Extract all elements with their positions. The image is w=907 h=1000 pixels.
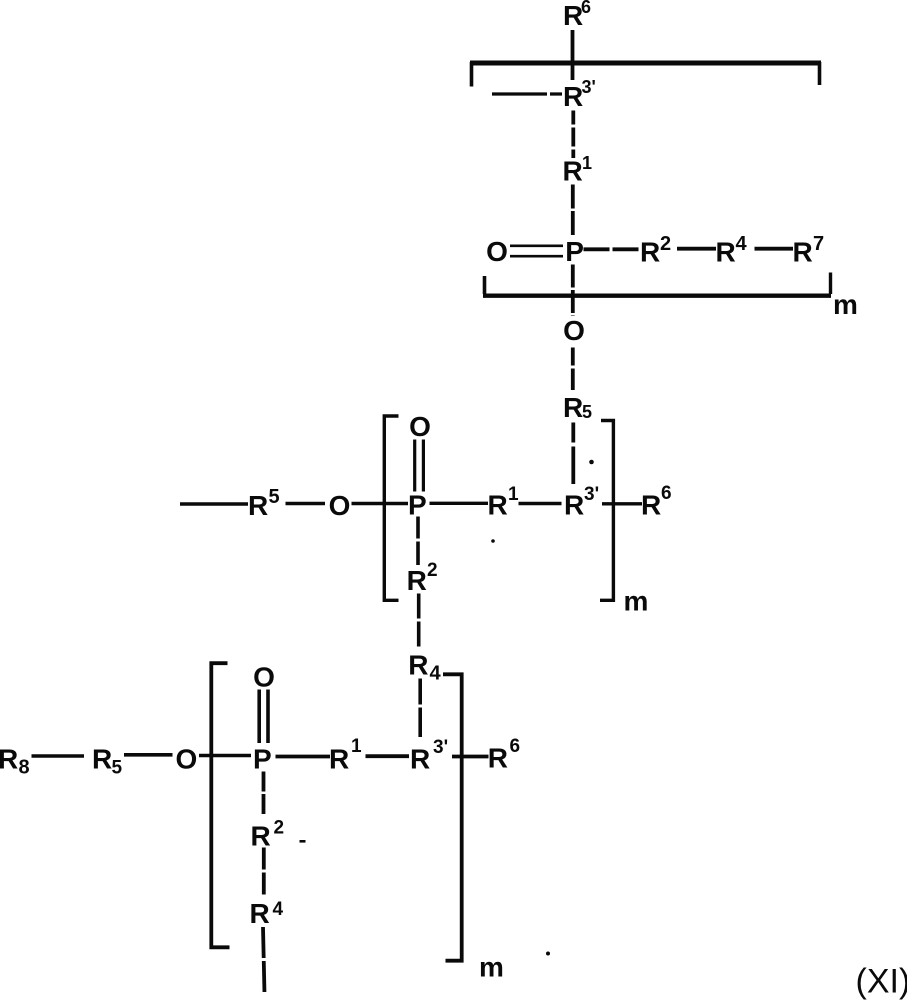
speck below R1 mid (491, 539, 495, 543)
bond O-P bottom (199, 754, 251, 758)
atom label R6 top (563, 0, 591, 31)
wire O-R5 spine (571, 348, 575, 391)
svg-text:R: R (640, 237, 660, 268)
svg-text:R: R (329, 744, 349, 775)
svg-text:5: 5 (112, 758, 123, 779)
svg-text:1: 1 (508, 484, 519, 505)
svg-text:R: R (563, 392, 583, 423)
bond R3'-R6 mid (602, 502, 642, 505)
atom label R1 bottom (329, 736, 362, 775)
svg-text:3': 3' (582, 77, 596, 97)
svg-text:R: R (488, 743, 508, 774)
svg-text:m: m (833, 289, 858, 320)
svg-text:(XI): (XI) (856, 963, 907, 1000)
svg-text:O: O (329, 490, 351, 521)
svg-text:R: R (488, 490, 508, 521)
bracket bottom horizontal top-section (483, 294, 831, 298)
atom label R6 mid (641, 483, 672, 521)
svg-text:1: 1 (351, 736, 362, 757)
bracket left mid (384, 416, 398, 600)
svg-text:8: 8 (19, 757, 30, 779)
wire R3'-R1 (571, 111, 575, 159)
wire below R4 (263, 927, 265, 994)
atom label R4 top (716, 233, 748, 268)
svg-text:4: 4 (736, 233, 748, 255)
svg-text:R: R (641, 490, 661, 521)
svg-text:O: O (176, 744, 198, 775)
svg-text:R: R (0, 744, 18, 775)
svg-text:6: 6 (661, 483, 672, 504)
atom label R7 top (793, 233, 825, 268)
svg-text:R: R (564, 490, 584, 521)
wire R6 to bracket vertical (571, 30, 575, 80)
double bond O=P mid (415, 440, 424, 492)
svg-text:P: P (253, 744, 272, 775)
svg-text:5: 5 (582, 402, 592, 422)
atom label R1 mid (488, 484, 520, 521)
atom label R3' bottom (410, 737, 448, 775)
bond R5-O mid (286, 502, 326, 505)
atom label R5 mid (248, 486, 280, 521)
atom label R4 bottom (250, 898, 284, 929)
atom label R5 spine (563, 392, 592, 423)
svg-text:P: P (565, 236, 584, 267)
svg-text:6: 6 (510, 736, 521, 757)
bracket left bottom (211, 663, 229, 947)
svg-text:R: R (407, 565, 427, 596)
atom label R5 bottom (92, 744, 123, 779)
svg-text:R: R (251, 821, 271, 852)
atom label R3' mid (564, 484, 599, 521)
bond O-P mid (352, 502, 409, 505)
double bond O=P top (510, 246, 563, 256)
bond R2-R4 top (677, 247, 716, 251)
svg-text:O: O (563, 315, 585, 346)
svg-text:O: O (253, 662, 275, 693)
svg-text:2: 2 (274, 818, 285, 839)
bond P-R2 top (584, 247, 640, 251)
svg-text:4: 4 (430, 663, 442, 685)
atom label R2 bottom (251, 818, 285, 852)
speck dot bottom (546, 952, 550, 956)
bracket right bottom (443, 674, 462, 960)
bond R2-R4 bottom (262, 848, 266, 898)
svg-text:R: R (250, 898, 270, 929)
bracket bottom right tick (829, 273, 832, 295)
speck dash near R2 bottom (300, 840, 306, 843)
wire R4-R3' bottom (418, 679, 422, 738)
svg-text:R: R (793, 237, 813, 268)
svg-text:3': 3' (584, 484, 599, 505)
svg-text:R: R (716, 237, 736, 268)
bracket right mid (600, 421, 613, 601)
svg-text:7: 7 (813, 233, 824, 255)
svg-text:m: m (479, 952, 504, 983)
svg-text:R: R (92, 744, 112, 775)
wire R2 down to R4 (417, 594, 421, 649)
bond R4-R7 top (755, 247, 794, 251)
atom label R6 bottom (488, 736, 520, 774)
svg-text:4: 4 (273, 899, 284, 920)
atom label R8 (0, 744, 30, 779)
wire P-O down (571, 265, 575, 317)
svg-text:3': 3' (433, 737, 448, 758)
svg-text:1: 1 (582, 153, 592, 173)
atom label R4 upper bottom-section (408, 650, 441, 685)
bond R1-R3' bottom (366, 754, 410, 758)
bracket top left tick (470, 62, 474, 87)
atom label R2 mid (407, 560, 438, 596)
svg-text:O: O (486, 236, 508, 267)
wire R1-P (571, 185, 575, 237)
bond P-R2 mid (416, 517, 420, 566)
bond R3'-R6 bottom (452, 755, 489, 759)
bond into R3' dashed (492, 92, 562, 95)
bond R1-R3' mid (519, 502, 562, 505)
svg-text:R: R (563, 81, 583, 112)
svg-text:2: 2 (427, 560, 438, 581)
bond P-R1 mid (430, 502, 489, 505)
svg-text:R: R (408, 650, 428, 681)
bracket top right tick (818, 62, 822, 85)
atom label R1 top (563, 153, 593, 187)
svg-text:O: O (409, 411, 431, 442)
svg-text:R: R (410, 744, 430, 775)
atom label R2 top (640, 233, 671, 268)
svg-text:m: m (624, 586, 649, 617)
svg-text:P: P (408, 490, 427, 521)
svg-text:2: 2 (660, 233, 671, 255)
bond P-R1 bottom (276, 755, 331, 759)
double bond O=P bottom (259, 690, 268, 744)
bond P-R2 bottom (262, 772, 266, 817)
bond R8-R5 (32, 754, 85, 758)
bracket top horizontal (470, 61, 821, 66)
svg-text:6: 6 (581, 0, 591, 17)
svg-text:5: 5 (269, 486, 280, 508)
wire R5-R3' spine (571, 423, 575, 485)
bond R5-O bottom (124, 753, 173, 757)
speck near R5 wire (589, 460, 594, 465)
atom label R3' top (563, 77, 596, 112)
svg-text:R: R (248, 490, 268, 521)
bond chain start left (180, 502, 248, 506)
bracket bottom left tick (483, 276, 487, 294)
svg-text:R: R (563, 156, 583, 187)
